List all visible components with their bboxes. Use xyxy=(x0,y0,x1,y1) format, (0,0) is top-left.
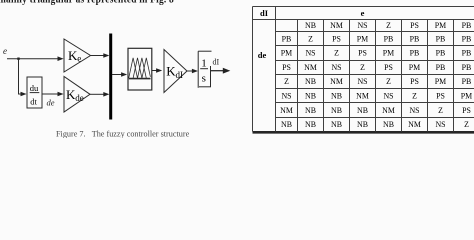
svg-text:NM: NM xyxy=(304,63,317,72)
svg-text:PB: PB xyxy=(462,21,472,30)
svg-text:NS: NS xyxy=(281,92,291,101)
svg-text:NS: NS xyxy=(357,77,367,86)
svg-text:NS: NS xyxy=(305,49,315,58)
svg-text:NB: NB xyxy=(305,77,316,86)
svg-text:PS: PS xyxy=(436,92,445,101)
svg-text:NM: NM xyxy=(280,106,293,115)
svg-text:PB: PB xyxy=(436,34,446,43)
svg-text:du: du xyxy=(30,83,39,93)
svg-text:PB: PB xyxy=(384,34,394,43)
table header de xyxy=(258,50,267,60)
svg-text:de: de xyxy=(47,98,55,108)
table column headers row xyxy=(305,21,471,30)
table header e xyxy=(361,8,365,18)
wire Kde to mux xyxy=(90,92,109,97)
svg-text:Z: Z xyxy=(308,34,313,43)
svg-text:e: e xyxy=(3,46,7,56)
block integrator 1/s xyxy=(198,51,211,88)
svg-text:PB: PB xyxy=(462,77,472,86)
node dI output label xyxy=(213,58,220,67)
svg-text:NB: NB xyxy=(357,120,368,129)
svg-text:PB: PB xyxy=(436,63,446,72)
svg-text:de: de xyxy=(75,93,84,103)
svg-text:NB: NB xyxy=(305,106,316,115)
svg-text:PB: PB xyxy=(282,34,292,43)
svg-text:Z: Z xyxy=(412,92,417,101)
wire Ke to mux xyxy=(91,53,110,58)
mux bar xyxy=(109,34,112,120)
cropped paragraph text top xyxy=(0,0,198,6)
svg-text:NM: NM xyxy=(356,92,369,101)
node e input label xyxy=(3,46,7,56)
svg-text:PM: PM xyxy=(435,77,446,86)
amp Kde xyxy=(64,77,90,113)
svg-text:PS: PS xyxy=(358,49,367,58)
svg-text:Figure 7. The fuzzy controll: Figure 7. The fuzzy controller structure xyxy=(56,129,190,138)
svg-text:NM: NM xyxy=(330,21,343,30)
svg-text:Z: Z xyxy=(464,120,469,129)
svg-text:PS: PS xyxy=(410,21,419,30)
table row NM xyxy=(280,106,471,115)
svg-text:PS: PS xyxy=(332,34,341,43)
svg-text:PM: PM xyxy=(409,63,420,72)
svg-text:NS: NS xyxy=(357,21,367,30)
svg-text:PB: PB xyxy=(410,49,420,58)
table row NB xyxy=(281,120,469,129)
svg-text:Z: Z xyxy=(360,63,365,72)
wire branch e to du/dt xyxy=(19,59,27,97)
svg-text:NB: NB xyxy=(331,106,342,115)
wire mux to fuzzifier xyxy=(112,72,127,77)
svg-text:PS: PS xyxy=(462,106,471,115)
svg-text:1: 1 xyxy=(201,58,207,70)
svg-text:NS: NS xyxy=(409,106,419,115)
table row PM xyxy=(281,49,472,58)
svg-text:dI: dI xyxy=(213,58,220,67)
svg-text:Z: Z xyxy=(438,106,443,115)
amp Ke xyxy=(64,39,91,72)
svg-text:dI: dI xyxy=(260,8,269,18)
svg-text:PM: PM xyxy=(383,49,394,58)
svg-text:NB: NB xyxy=(383,120,394,129)
svg-text:PB: PB xyxy=(410,34,420,43)
svg-text:PB: PB xyxy=(462,63,472,72)
svg-text:PS: PS xyxy=(282,63,291,72)
svg-text:de: de xyxy=(258,50,267,60)
svg-text:NS: NS xyxy=(435,120,445,129)
table header dI xyxy=(260,8,269,18)
table row Z xyxy=(284,77,471,86)
svg-text:Z: Z xyxy=(386,21,391,30)
svg-text:PM: PM xyxy=(281,49,292,58)
svg-text:NS: NS xyxy=(383,92,393,101)
svg-text:PB: PB xyxy=(436,49,446,58)
svg-text:dt: dt xyxy=(30,97,37,107)
svg-text:NB: NB xyxy=(305,21,316,30)
svg-text:NB: NB xyxy=(331,120,342,129)
svg-text:NM: NM xyxy=(408,120,421,129)
svg-text:NB: NB xyxy=(357,106,368,115)
svg-text:Z: Z xyxy=(386,77,391,86)
amp KdI xyxy=(164,50,187,93)
svg-text:dI: dI xyxy=(176,70,184,80)
table outer frame xyxy=(253,7,474,133)
node de label xyxy=(47,98,55,108)
block fuzzifier membership functions xyxy=(128,48,152,90)
svg-text:Z: Z xyxy=(284,77,289,86)
svg-text:NM: NM xyxy=(382,106,395,115)
wire du/dt to Kde xyxy=(42,92,64,97)
svg-text:PM: PM xyxy=(435,21,446,30)
wire output dI xyxy=(211,68,231,74)
svg-text:NB: NB xyxy=(305,92,316,101)
svg-text:NM: NM xyxy=(330,77,343,86)
svg-text:e: e xyxy=(361,8,365,18)
svg-text:PS: PS xyxy=(384,63,393,72)
svg-text:NB: NB xyxy=(331,92,342,101)
wire e to Ke xyxy=(7,56,64,61)
svg-text:PB: PB xyxy=(462,49,472,58)
wire fuzzifier to KdI xyxy=(152,68,163,73)
svg-text:PS: PS xyxy=(410,77,419,86)
wire KdI to integrator xyxy=(187,69,198,74)
svg-text:PB: PB xyxy=(462,34,472,43)
caption figure 7 xyxy=(56,129,190,138)
svg-text:NB: NB xyxy=(281,120,292,129)
svg-text:s: s xyxy=(202,73,206,85)
svg-text:PM: PM xyxy=(461,92,472,101)
block derivative du/dt xyxy=(27,77,42,108)
table row PB xyxy=(282,34,472,43)
svg-text:PM: PM xyxy=(357,34,368,43)
svg-text:Z: Z xyxy=(334,49,339,58)
svg-text:NS: NS xyxy=(331,63,341,72)
junction node on e wire xyxy=(17,58,19,60)
svg-text:NB: NB xyxy=(305,120,316,129)
table row PS xyxy=(282,63,471,72)
svg-text:e: e xyxy=(77,54,81,64)
table row NS xyxy=(281,92,472,101)
